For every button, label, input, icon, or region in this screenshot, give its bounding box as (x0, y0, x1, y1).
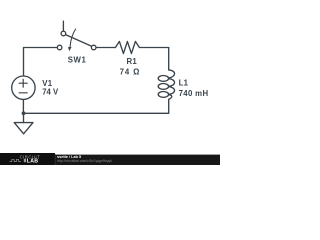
svg-text:L1: L1 (179, 78, 189, 87)
svg-text:74 V: 74 V (42, 87, 59, 96)
svg-text:74 Ω: 74 Ω (120, 68, 141, 77)
svg-text:LAB: LAB (27, 158, 39, 164)
svg-text:http://circuitlab.com/c/5u7yqg: http://circuitlab.com/c/5u7yqgn9byqk (57, 159, 112, 163)
svg-text:R1: R1 (127, 57, 138, 66)
svg-text:740 mH: 740 mH (179, 89, 209, 98)
svg-text:SW1: SW1 (68, 56, 87, 65)
